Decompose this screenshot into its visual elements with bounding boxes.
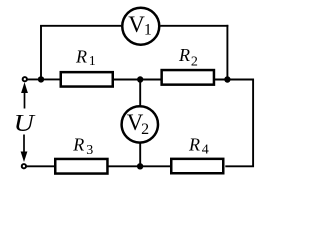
label U <box>14 110 37 137</box>
resistor R1 <box>61 47 113 87</box>
wire V2 branch upper vertical <box>139 80 141 106</box>
voltmeter V1 <box>122 8 159 45</box>
resistor R3 <box>55 135 107 174</box>
resistor R4 <box>171 135 223 174</box>
svg-text:R: R <box>178 45 190 65</box>
wire right vertical side <box>225 79 253 167</box>
wire bottom rail: terminal to R3 <box>26 165 55 167</box>
U source arrow down <box>21 135 28 163</box>
node B: junction between R1 and R2 (V2 tap) <box>137 76 143 82</box>
svg-text:R: R <box>188 135 200 155</box>
svg-text:3: 3 <box>86 143 93 158</box>
resistor R2 <box>162 45 214 85</box>
svg-text:R: R <box>75 47 87 67</box>
svg-text:U: U <box>14 110 37 137</box>
svg-text:2: 2 <box>141 121 149 138</box>
node C: junction right of R2 <box>224 76 230 82</box>
svg-text:1: 1 <box>89 54 96 69</box>
wire top rail right of V1 <box>161 25 229 27</box>
voltmeter V2 <box>122 106 158 142</box>
svg-text:1: 1 <box>144 22 152 39</box>
terminal bottom-left <box>22 164 26 168</box>
node A: junction left of R1 <box>38 76 44 82</box>
U source arrow up <box>21 82 28 108</box>
wire top-left vertical riser <box>40 26 42 80</box>
node D: junction on bottom rail (V2 tap) <box>137 163 143 169</box>
wire top-right vertical riser <box>226 25 228 80</box>
svg-text:V: V <box>128 12 145 37</box>
wire main rail: terminal to R1 <box>27 78 61 80</box>
wire top rail left of V1 <box>40 25 121 27</box>
wire V2 branch lower vertical <box>139 143 141 166</box>
svg-text:R: R <box>72 135 84 155</box>
svg-text:4: 4 <box>202 142 209 157</box>
svg-text:2: 2 <box>191 54 198 69</box>
wire main rail: R1 to R2 <box>113 79 162 81</box>
terminal top-left <box>23 77 27 81</box>
wire bottom rail: R3 to R4 <box>108 165 171 167</box>
wire main rail: R2 to right corner <box>214 79 253 81</box>
